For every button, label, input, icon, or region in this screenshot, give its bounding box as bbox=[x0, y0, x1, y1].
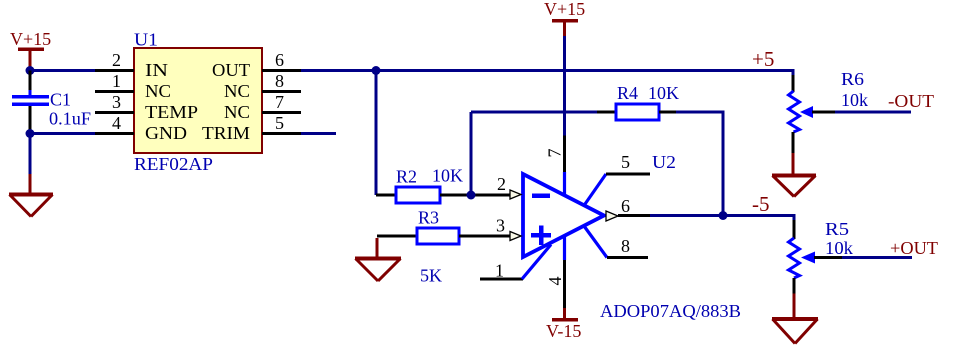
U2 pin 1 stub bbox=[480, 278, 523, 281]
svg-text:V+15: V+15 bbox=[544, 0, 585, 19]
wire +5 net: U1 OUT across to R6 bbox=[301, 69, 793, 72]
svg-text:V-15: V-15 bbox=[546, 321, 581, 341]
U2 pin 5 stub bbox=[606, 173, 650, 176]
svg-text:4: 4 bbox=[545, 277, 565, 286]
junction node A (V+15 / C1 / U1 pin2) bbox=[26, 66, 35, 75]
resistor R3 bbox=[417, 228, 459, 244]
wire V+15 down to U2 pin7 bbox=[563, 36, 566, 136]
wire -OUT bbox=[835, 111, 911, 114]
U1 pin 2 stub bbox=[95, 69, 134, 72]
svg-text:-5: -5 bbox=[752, 192, 770, 216]
svg-text:6: 6 bbox=[275, 50, 284, 70]
svg-text:ADOP07AQ/883B: ADOP07AQ/883B bbox=[600, 301, 741, 321]
power port V+15 (middle) bbox=[544, 0, 585, 36]
R5 wiper stub bbox=[814, 256, 842, 259]
U2 output arrow (pin 6) bbox=[606, 211, 618, 221]
U2 pin 6 stub bbox=[618, 214, 650, 217]
wire node B to U1 pin4 bbox=[30, 132, 95, 135]
U1 pin 7 stub bbox=[262, 111, 301, 114]
junction node C (+5 net to R2 branch) bbox=[372, 66, 381, 75]
power port V+15 (left) bbox=[10, 29, 51, 67]
resistor R4 bbox=[616, 104, 659, 120]
U2 pin 1 symbol segment bbox=[522, 245, 551, 280]
svg-text:3: 3 bbox=[496, 216, 505, 236]
svg-text:U1: U1 bbox=[134, 30, 158, 50]
R4 right stub bbox=[659, 111, 676, 114]
op-amp U2 triangle bbox=[523, 174, 604, 257]
wire -5 net: U2 out to R5 bbox=[650, 214, 794, 217]
power port V-15 bbox=[546, 308, 581, 341]
svg-text:+5: +5 bbox=[752, 47, 774, 71]
junction node D (inverting input / feedback) bbox=[467, 191, 476, 200]
U2 plus symbol bbox=[531, 226, 551, 246]
svg-text:R2: R2 bbox=[396, 167, 417, 187]
U2 pin 5 symbol segment bbox=[584, 174, 606, 206]
junction node B (C1 / GND / U1 pin4) bbox=[26, 129, 35, 138]
svg-text:5: 5 bbox=[621, 152, 630, 172]
U2 minus symbol bbox=[532, 194, 550, 199]
svg-text:10k: 10k bbox=[825, 238, 853, 258]
svg-text:TRIM: TRIM bbox=[202, 123, 250, 143]
U2 pin 8 symbol segment bbox=[584, 226, 607, 258]
svg-text:+OUT: +OUT bbox=[890, 238, 938, 258]
U2 pin 4 stub bbox=[563, 260, 566, 308]
junction node E (output / feedback) bbox=[719, 211, 728, 220]
svg-text:5K: 5K bbox=[420, 266, 442, 286]
svg-text:NC: NC bbox=[224, 102, 250, 122]
U1 pin 4 stub bbox=[95, 132, 134, 135]
svg-text:5: 5 bbox=[275, 113, 284, 133]
ground (below R5) bbox=[772, 319, 818, 344]
U1 pin 3 stub bbox=[95, 111, 134, 114]
wire C1 to lower junction bbox=[29, 106, 32, 134]
wire TRIM stub (pin 5) bbox=[301, 132, 336, 135]
R5 bottom lead bbox=[793, 278, 796, 294]
R5 top lead bbox=[793, 220, 796, 239]
wire node C down to R2 bbox=[375, 71, 378, 196]
svg-text:0.1uF: 0.1uF bbox=[49, 109, 91, 129]
capacitor C1 bbox=[12, 90, 49, 112]
wire node A down to C1 bbox=[29, 71, 32, 96]
svg-text:U2: U2 bbox=[652, 152, 676, 172]
svg-text:R6: R6 bbox=[841, 69, 864, 89]
U2 pin 4 symbol segment bbox=[563, 236, 566, 260]
R6 wiper stub bbox=[812, 111, 835, 114]
wire R4 input bbox=[471, 111, 597, 114]
svg-text:8: 8 bbox=[275, 71, 284, 91]
svg-text:2: 2 bbox=[497, 174, 506, 194]
wire node D up to R4 bbox=[470, 112, 473, 195]
R4 left stub bbox=[597, 111, 616, 114]
wire -5 net corner down to R5 bbox=[793, 214, 796, 222]
potentiometer R5 bbox=[789, 238, 800, 278]
svg-text:V+15: V+15 bbox=[10, 29, 51, 49]
svg-text:10k: 10k bbox=[841, 90, 868, 110]
U1 pin 6 stub bbox=[262, 69, 301, 72]
U2 pin 7 symbol segment bbox=[563, 172, 566, 196]
svg-text:NC: NC bbox=[224, 81, 250, 101]
U1 pin 1 stub bbox=[95, 90, 134, 93]
U1 pin 8 stub bbox=[262, 90, 301, 93]
svg-text:4: 4 bbox=[112, 113, 121, 133]
wire +OUT bbox=[842, 256, 912, 259]
R5 wiper arrow bbox=[801, 252, 815, 264]
svg-text:GND: GND bbox=[145, 123, 187, 143]
svg-text:TEMP: TEMP bbox=[145, 102, 198, 122]
R6 bottom lead bbox=[792, 132, 795, 153]
svg-text:-OUT: -OUT bbox=[888, 91, 934, 111]
potentiometer R6 bbox=[789, 91, 800, 132]
svg-text:OUT: OUT bbox=[212, 60, 250, 80]
R6 top lead bbox=[792, 75, 795, 92]
U1 pin 5 stub bbox=[262, 132, 301, 135]
wire ground to R3 bbox=[377, 235, 417, 238]
svg-text:IN: IN bbox=[145, 60, 168, 80]
svg-text:R5: R5 bbox=[825, 219, 849, 239]
wire V+15 node to U1 pin2 bbox=[30, 69, 95, 72]
wire R2 left corner bbox=[376, 194, 396, 197]
svg-text:NC: NC bbox=[145, 81, 171, 101]
IC U1 REF02AP body bbox=[134, 48, 262, 153]
wire +5 net corner down to R6 bbox=[792, 69, 795, 77]
svg-text:1: 1 bbox=[495, 261, 504, 281]
wire R2 to U2 pin2 bbox=[440, 194, 511, 197]
svg-text:2: 2 bbox=[112, 50, 121, 70]
ground (below R6) bbox=[772, 176, 816, 197]
svg-text:3: 3 bbox=[112, 92, 121, 112]
U2 pin 7 stub bbox=[563, 136, 566, 173]
ground (left, below C1) bbox=[9, 195, 53, 217]
U2 pin 8 stub bbox=[607, 256, 648, 259]
svg-text:8: 8 bbox=[621, 236, 630, 256]
svg-text:R3: R3 bbox=[418, 208, 439, 228]
svg-text:6: 6 bbox=[621, 196, 630, 216]
ground (R3 input) bbox=[355, 238, 401, 281]
svg-text:REF02AP: REF02AP bbox=[134, 154, 213, 174]
U2 pin 2 arrow bbox=[510, 190, 521, 199]
svg-text:10K: 10K bbox=[648, 83, 679, 103]
svg-text:1: 1 bbox=[112, 71, 121, 91]
wire R4 to output net bbox=[676, 112, 723, 216]
svg-text:7: 7 bbox=[545, 149, 565, 158]
wire node B down to ground bbox=[29, 134, 32, 175]
wire R3 to U2 pin3 bbox=[459, 235, 511, 238]
svg-text:10K: 10K bbox=[432, 166, 463, 186]
svg-text:C1: C1 bbox=[50, 90, 71, 110]
svg-text:R4: R4 bbox=[617, 83, 638, 103]
U2 pin 3 arrow bbox=[510, 232, 521, 241]
svg-text:7: 7 bbox=[275, 92, 284, 112]
resistor R2 bbox=[396, 187, 440, 203]
R6 wiper arrow bbox=[800, 106, 813, 118]
